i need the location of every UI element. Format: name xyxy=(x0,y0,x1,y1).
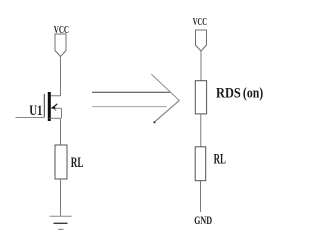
wire gate lead of U1 xyxy=(16,117,45,119)
node GND label xyxy=(194,213,212,227)
svg-text:GND: GND xyxy=(194,213,212,227)
wire VCC to RDS(on) xyxy=(200,51,202,81)
transistor U1 (N-MOSFET) xyxy=(44,92,61,121)
resistor RL (left) xyxy=(55,145,67,179)
wire RL to ground xyxy=(60,179,62,216)
svg-text:VCC: VCC xyxy=(193,16,207,28)
U1 reference label xyxy=(29,103,42,119)
VCC label (right) xyxy=(193,16,207,28)
power symbol VCC (left) xyxy=(55,34,66,57)
svg-text:RDS: RDS xyxy=(216,86,241,102)
equivalence arrow xyxy=(92,74,179,123)
RL value label (left) xyxy=(71,155,84,171)
ground xyxy=(50,216,72,229)
RDS(on) value label xyxy=(216,86,263,102)
svg-text:RL: RL xyxy=(214,151,226,167)
svg-text:(on): (on) xyxy=(243,86,263,102)
RL value label (right) xyxy=(214,151,226,167)
power symbol VCC (right) xyxy=(196,30,207,51)
VCC label (left) xyxy=(54,24,69,36)
wire RL to GND xyxy=(200,181,202,212)
svg-text:U1: U1 xyxy=(29,103,42,119)
resistor RL (right) xyxy=(195,147,206,181)
wire source of U1 to RL xyxy=(60,118,62,145)
svg-text:RL: RL xyxy=(71,155,84,171)
resistor RDS(on) xyxy=(195,81,206,114)
wire RDS(on) to RL xyxy=(200,114,202,147)
wire VCC to drain of U1 xyxy=(51,57,61,96)
